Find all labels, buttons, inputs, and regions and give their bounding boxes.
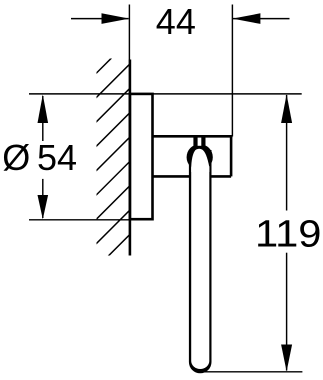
svg-text:Ø: Ø xyxy=(2,137,30,178)
svg-text:119: 119 xyxy=(255,214,322,256)
svg-text:54: 54 xyxy=(37,137,77,178)
svg-text:44: 44 xyxy=(156,1,196,42)
